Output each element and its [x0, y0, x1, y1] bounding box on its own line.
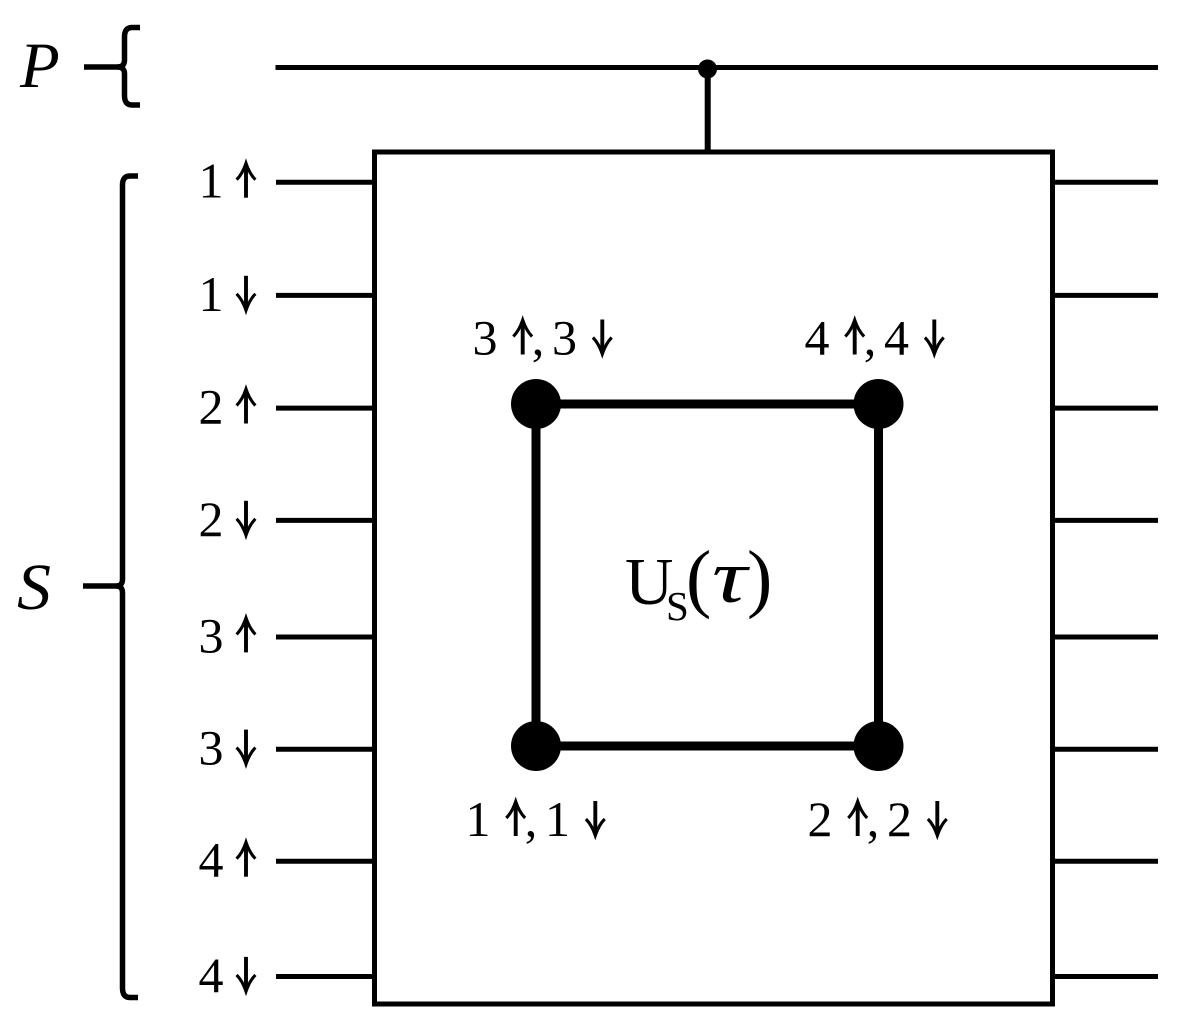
- svg-text:S: S: [17, 551, 51, 624]
- wire 4up right: [1050, 859, 1158, 864]
- wire 1up right: [1050, 180, 1158, 185]
- wire 1up left: [276, 180, 377, 185]
- svg-text:1: 1: [199, 153, 224, 209]
- wire 4dn right: [1050, 974, 1158, 979]
- gate label U_S(tau): [625, 536, 772, 629]
- node label 2: [808, 791, 947, 847]
- node label 3: [473, 310, 612, 366]
- lattice site node 1 (bottom-left): [511, 721, 561, 771]
- wire 2up right: [1050, 406, 1158, 411]
- svg-text:2: 2: [199, 379, 224, 435]
- wire S tick: [83, 583, 121, 589]
- svg-text:τ: τ: [712, 536, 751, 619]
- svg-text:2: 2: [808, 791, 833, 847]
- node label 4: [805, 310, 944, 366]
- svg-text:,: ,: [532, 310, 545, 366]
- svg-text:2: 2: [199, 491, 224, 547]
- svg-text:4: 4: [884, 310, 909, 366]
- wire 1dn right: [1050, 293, 1158, 298]
- svg-text:3: 3: [552, 310, 577, 366]
- svg-text:,: ,: [864, 310, 877, 366]
- wire 2dn left: [276, 518, 377, 523]
- svg-text:3: 3: [199, 720, 224, 776]
- svg-text:2: 2: [887, 791, 912, 847]
- lattice site node 2 (bottom-right): [854, 721, 904, 771]
- wire P: [276, 65, 1159, 70]
- wire control vertical: [705, 69, 711, 152]
- wire 3up left: [276, 635, 377, 640]
- wire P tick: [84, 64, 122, 70]
- wire 4dn left: [276, 974, 377, 979]
- svg-text:): ): [747, 536, 772, 620]
- svg-text:3: 3: [199, 607, 224, 663]
- wire 3up right: [1050, 635, 1158, 640]
- svg-text:4: 4: [199, 947, 224, 1003]
- node label 1: [466, 791, 605, 847]
- svg-text:,: ,: [867, 791, 880, 847]
- wire 4up left: [276, 859, 377, 864]
- brace for P register: [118, 28, 141, 106]
- lattice square edges: [536, 404, 879, 746]
- svg-text:4: 4: [199, 832, 224, 888]
- control dot on wire P: [698, 60, 717, 79]
- svg-text:3: 3: [473, 310, 498, 366]
- wire 2up left: [276, 406, 377, 411]
- brace for S register: [117, 176, 139, 998]
- gate box U_S: [375, 152, 1053, 1004]
- lattice site node 3 (top-left): [511, 379, 561, 429]
- lattice site node 4 (top-right): [854, 379, 904, 429]
- wire 3dn left: [276, 747, 377, 752]
- svg-text:1: 1: [545, 791, 570, 847]
- wire 1dn left: [276, 293, 377, 298]
- wire 3dn right: [1050, 747, 1158, 752]
- svg-text:,: ,: [525, 791, 538, 847]
- svg-text:P: P: [19, 30, 60, 102]
- wire 2dn right: [1050, 518, 1158, 523]
- svg-text:1: 1: [466, 791, 491, 847]
- svg-text:4: 4: [805, 310, 830, 366]
- svg-text:(: (: [686, 536, 711, 620]
- svg-text:1: 1: [199, 266, 224, 322]
